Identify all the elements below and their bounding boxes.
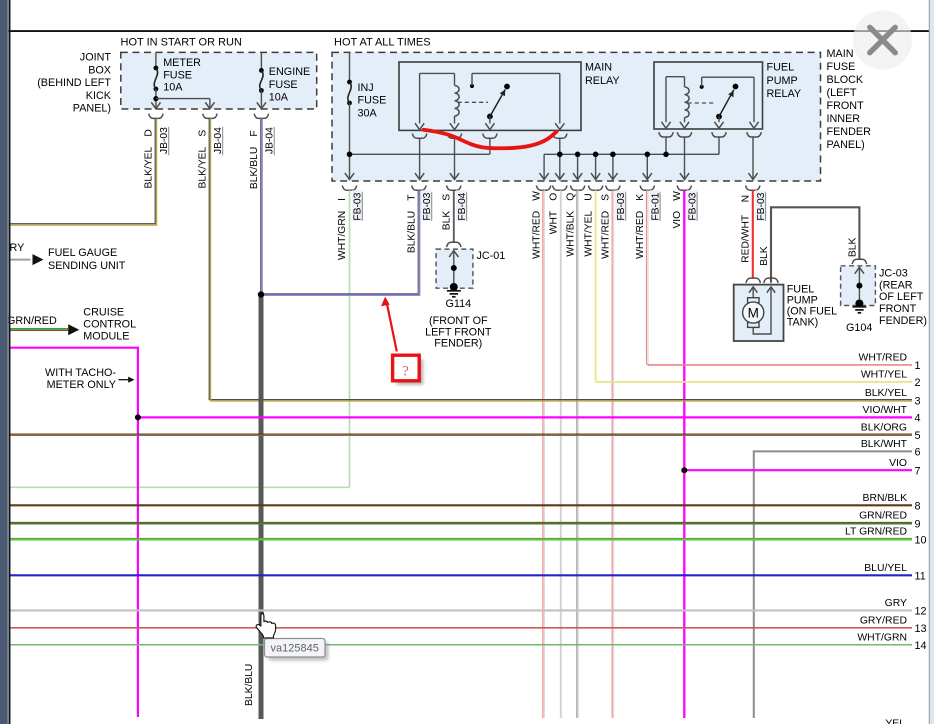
wire 12 GRY (10, 609, 912, 611)
svg-text:MAIN: MAIN (585, 62, 612, 74)
wire U WHT/YEL to wire 2 (595, 190, 597, 381)
wire drop U (595, 154, 597, 178)
svg-text:va125845: va125845 (271, 643, 319, 655)
wire 14 WHT/GRN (10, 644, 912, 646)
svg-text:GRN/RED: GRN/RED (7, 315, 57, 327)
svg-text:8: 8 (915, 501, 921, 513)
svg-text:HOT IN START OR RUN: HOT IN START OR RUN (121, 37, 242, 49)
wire S BLK/YEL joint box to wire 3 (209, 118, 912, 399)
wire 8 BRN/BLK (10, 504, 912, 506)
svg-text:WHT/RED: WHT/RED (531, 211, 542, 259)
annotation red highlight curve on main relay (424, 130, 557, 148)
header band (0, 0, 934, 30)
svg-text:WITH TACHO-: WITH TACHO- (45, 367, 116, 379)
svg-text:PUMP: PUMP (767, 75, 798, 87)
wire 10 LT GRN/RED (10, 537, 912, 539)
right scrollbar strip (930, 0, 934, 724)
annotation red arrow (387, 304, 397, 352)
cups below main fuse block (342, 186, 356, 191)
junction dot wire 7 (681, 467, 687, 473)
svg-text:M: M (748, 305, 759, 320)
tooltip va125845 (265, 639, 326, 658)
wire BLK fuel pump ground path (771, 207, 859, 282)
svg-text:FUEL GAUGE: FUEL GAUGE (48, 247, 117, 259)
svg-text:K: K (635, 194, 646, 201)
cups below fuel pump relay (659, 132, 673, 137)
svg-text:RED/WHT: RED/WHT (741, 214, 752, 263)
svg-text:BLK/YEL: BLK/YEL (865, 388, 907, 399)
svg-text:W: W (672, 191, 683, 201)
wire 11 BLU/YEL (10, 574, 912, 576)
svg-text:13: 13 (915, 623, 927, 635)
svg-text:PANEL): PANEL) (827, 139, 865, 151)
svg-text:S: S (601, 194, 612, 201)
svg-text:BLK/ORG: BLK/ORG (861, 422, 907, 433)
svg-text:SENDING UNIT: SENDING UNIT (48, 260, 126, 272)
wire main relay coil pin T drop (419, 138, 421, 178)
wire drop S2 (612, 154, 614, 178)
svg-text:FENDER): FENDER) (879, 315, 927, 327)
svg-text:BLK: BLK (442, 211, 453, 231)
fuel pump relay coil (665, 77, 667, 123)
svg-text:14: 14 (915, 640, 927, 652)
svg-text:30A: 30A (358, 107, 378, 119)
motor M symbol (748, 298, 759, 303)
wire 9 GRN/RED (10, 521, 912, 523)
wire 2 WHT/YEL (596, 381, 912, 383)
svg-text:FUSE: FUSE (827, 61, 856, 73)
wire 1 WHT/RED (647, 364, 912, 366)
fuel pump relay actuation dashed link (688, 102, 717, 104)
svg-text:9: 9 (915, 518, 921, 530)
svg-text:MAIN: MAIN (827, 48, 854, 60)
svg-text:INNER: INNER (827, 113, 861, 125)
arrow to cruise control module (68, 324, 79, 335)
fuse ENGINE FUSE 10A (260, 52, 262, 70)
svg-text:6: 6 (915, 447, 921, 459)
main fuse block box (dashed) (332, 52, 821, 181)
fuse INJ FUSE 30A (349, 52, 351, 82)
svg-text:HOT AT ALL TIMES: HOT AT ALL TIMES (334, 37, 431, 49)
svg-text:I: I (337, 198, 348, 201)
svg-text:INJ: INJ (358, 82, 374, 94)
svg-text:WHT: WHT (549, 210, 560, 234)
connector JC-01 box (436, 249, 473, 288)
connector JC-03 box (841, 266, 876, 306)
wire 13 GRY/RED (10, 627, 912, 629)
wire S BLK from FB-04 to G114 (453, 190, 455, 242)
wire drop Q (577, 154, 579, 178)
annotation red question box shadow (397, 359, 424, 385)
junction dot F/T/trunk (258, 291, 264, 297)
wire meter fuse branch to S (156, 98, 210, 100)
svg-text:WHT/YEL: WHT/YEL (583, 211, 594, 257)
svg-text:3: 3 (915, 396, 921, 408)
left sidebar (0, 0, 9, 724)
svg-text:D: D (143, 129, 154, 136)
junction dot wire 4 (135, 414, 141, 420)
svg-text:WHT/RED: WHT/RED (635, 211, 646, 259)
wire Q WHT/BLK down to bottom (576, 190, 578, 718)
main relay actuation dashed link (458, 101, 489, 103)
svg-text:BLK/BLU: BLK/BLU (244, 664, 255, 706)
svg-text:JC-03: JC-03 (879, 267, 908, 279)
svg-text:JC-01: JC-01 (477, 250, 506, 262)
svg-text:BLOCK: BLOCK (827, 74, 864, 86)
svg-text:FRONT: FRONT (879, 303, 917, 315)
svg-text:FENDER): FENDER) (434, 337, 482, 349)
svg-text:BLK/WHT: BLK/WHT (861, 439, 908, 450)
svg-text:F: F (249, 130, 260, 136)
svg-text:(REAR: (REAR (879, 279, 913, 291)
svg-text:VIO: VIO (889, 458, 907, 469)
wire 4 VIO/WHT (138, 416, 912, 418)
svg-text:1: 1 (915, 360, 921, 372)
wire D BLK/YEL to left edge (10, 118, 155, 223)
wire rail B fed by main relay output (544, 153, 719, 155)
svg-text:GRN/RED: GRN/RED (859, 511, 907, 522)
svg-text:7: 7 (915, 466, 921, 478)
connector JC-01 cap (447, 242, 461, 247)
svg-text:G104: G104 (846, 322, 872, 334)
wire 6 BLK/WHT (754, 451, 912, 718)
connector cups below joint box (149, 114, 163, 119)
tooltip shadow (268, 642, 329, 661)
main relay switch (470, 84, 474, 88)
svg-text:GRY: GRY (885, 598, 907, 609)
wire fuel pump relay coil output VIO drop (684, 137, 686, 178)
svg-text:ENGINE: ENGINE (269, 66, 310, 78)
annotation red question box (393, 355, 420, 381)
svg-text:WHT/GRN: WHT/GRN (337, 211, 348, 260)
wire 7 VIO (684, 469, 912, 471)
svg-text:(LEFT: (LEFT (827, 87, 857, 99)
wire O WHT down to bottom (560, 190, 562, 718)
svg-text:PANEL): PANEL) (73, 103, 111, 115)
relay MAIN RELAY box (399, 62, 581, 130)
svg-text:BLK/BLU: BLK/BLU (249, 147, 260, 189)
fuel pump caps (746, 278, 760, 283)
JC-03 internal wire (855, 267, 864, 273)
svg-text:KICK: KICK (86, 90, 112, 102)
svg-text:BOX: BOX (88, 64, 111, 76)
main relay coil (419, 73, 421, 123)
header divider line (0, 30, 929, 32)
svg-text:U: U (583, 193, 594, 200)
svg-text:BLU/YEL: BLU/YEL (864, 563, 907, 574)
wire main relay NO pin through rail B (O) (559, 138, 561, 178)
relay FUEL PUMP RELAY box (654, 62, 763, 129)
fuel pump relay switch (700, 85, 704, 89)
wire drop K (646, 154, 648, 178)
connector JC-03 cap (852, 259, 866, 264)
svg-text:WHT/GRN: WHT/GRN (857, 632, 907, 643)
wire 5 BLK/ORG (10, 433, 912, 435)
svg-text:BLK: BLK (847, 238, 858, 258)
fuel pump internal wires (749, 287, 757, 293)
svg-text:RELAY: RELAY (767, 88, 802, 100)
ground G104 symbol (852, 306, 866, 308)
wire K WHT/RED to wire 1 (646, 190, 648, 365)
wire VIO W down to bottom (683, 190, 685, 718)
svg-text:RELAY: RELAY (585, 75, 620, 87)
junction inj fuse / rail A (347, 152, 353, 158)
svg-text:WHT/RED: WHT/RED (859, 353, 907, 364)
svg-text:GRY/RED: GRY/RED (860, 615, 907, 626)
svg-text:FUSE: FUSE (163, 69, 192, 81)
svg-text:12: 12 (915, 606, 927, 618)
svg-text:RY: RY (10, 242, 25, 254)
svg-text:YEL: YEL (885, 719, 905, 724)
svg-text:2: 2 (915, 377, 921, 389)
wire GRY stub to fuel gauge sending unit (10, 259, 31, 261)
wire N RED/WHT to fuel pump (752, 190, 754, 278)
svg-text:4: 4 (915, 413, 921, 425)
wire BLK/BLU thick trunk down (259, 295, 264, 720)
svg-text:WHT/BLK: WHT/BLK (565, 211, 576, 257)
close button (853, 10, 912, 69)
svg-text:S: S (442, 194, 453, 201)
svg-text:BRN/BLK: BRN/BLK (863, 493, 908, 504)
cups below main relay (412, 134, 426, 139)
svg-text:MODULE: MODULE (83, 331, 129, 343)
motor fuel pump box (734, 285, 784, 341)
svg-text:LT GRN/RED: LT GRN/RED (845, 527, 907, 538)
wire rail A inj fuse to main relay common (350, 153, 490, 155)
svg-text:METER: METER (163, 57, 201, 69)
svg-text:11: 11 (915, 571, 926, 583)
svg-text:VIO/WHT: VIO/WHT (863, 405, 908, 416)
arrow to fuel gauge sending unit (33, 254, 44, 265)
svg-text:WHT/RED: WHT/RED (601, 211, 612, 259)
svg-text:(BEHIND LEFT: (BEHIND LEFT (37, 77, 111, 89)
wire fuel pump relay coil feed (665, 137, 667, 154)
svg-text:5: 5 (915, 430, 921, 442)
svg-text:10: 10 (915, 534, 927, 546)
svg-text:METER ONLY: METER ONLY (47, 379, 116, 391)
ground G114 symbol (447, 290, 461, 292)
cursor hand pointer (256, 613, 275, 638)
svg-text:OF LEFT: OF LEFT (879, 291, 924, 303)
wire S2 WHT/RED down to bottom (611, 190, 613, 718)
svg-text:BLK/YEL: BLK/YEL (197, 146, 208, 188)
svg-text:?: ? (402, 364, 409, 380)
fuse METER FUSE 10A (155, 52, 157, 68)
svg-text:FENDER: FENDER (827, 126, 872, 138)
svg-text:T: T (407, 194, 418, 201)
svg-text:O: O (549, 193, 560, 201)
wire W WHT/RED down to bottom (542, 190, 544, 718)
arrow to tachometer wire (119, 379, 130, 381)
svg-text:S: S (197, 130, 208, 137)
svg-text:VIO: VIO (672, 211, 683, 229)
svg-text:FUSE: FUSE (358, 95, 387, 107)
svg-text:JOINT: JOINT (80, 52, 112, 64)
wire fuel pump relay NO pin drop N (752, 137, 754, 178)
wire T BLK/BLU from FB-03 to junction (261, 190, 418, 293)
svg-text:TANK): TANK) (787, 317, 819, 329)
svg-text:G114: G114 (445, 298, 471, 310)
left border line (9, 0, 11, 724)
svg-text:CONTROL: CONTROL (83, 319, 136, 331)
wire GRN/RED stub to cruise control module (10, 328, 68, 330)
wire VIO/WHT path from left edge (10, 348, 138, 717)
svg-text:WHT/YEL: WHT/YEL (861, 370, 907, 381)
svg-text:BLK: BLK (759, 246, 770, 266)
wire F BLK/BLU to junction (260, 118, 262, 294)
svg-text:CRUISE: CRUISE (83, 307, 124, 319)
wire I WHT/GRN from FB-03 to left edge (349, 190, 351, 487)
svg-text:FRONT: FRONT (827, 100, 865, 112)
wire main relay coil pin S drop (454, 138, 456, 178)
svg-text:FUEL: FUEL (767, 62, 795, 74)
svg-text:BLK/YEL: BLK/YEL (143, 146, 154, 188)
JC-01 internal wire (449, 251, 458, 257)
svg-text:Q: Q (565, 193, 576, 201)
svg-text:N: N (741, 195, 752, 202)
wire drop W (543, 154, 545, 178)
svg-text:10A: 10A (163, 82, 183, 94)
svg-text:BLK/BLU: BLK/BLU (407, 211, 418, 253)
svg-text:10A: 10A (269, 91, 289, 103)
joint box (dashed, behind left kick panel) (121, 52, 317, 109)
svg-text:FUSE: FUSE (269, 79, 298, 91)
svg-text:W: W (531, 191, 542, 201)
